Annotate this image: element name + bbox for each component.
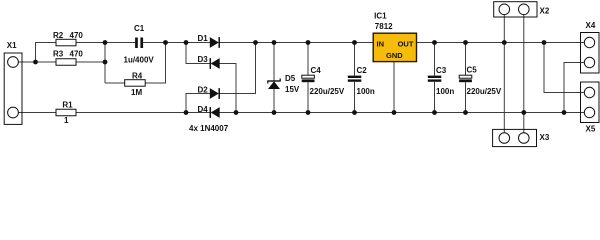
- wire gnd rail: [220, 112, 585, 114]
- svg-text:X5: X5: [586, 124, 596, 133]
- svg-text:220u/25V: 220u/25V: [310, 87, 345, 96]
- node junction C2 top: [352, 40, 357, 45]
- wire C4 bottom: [307, 82, 309, 112]
- node junction C5 top: [463, 40, 468, 45]
- wire R4 right: [145, 43, 165, 84]
- svg-text:X2: X2: [540, 7, 550, 16]
- node junction X4 gnd branch: [562, 110, 567, 115]
- wire plus branch to X5 pin1: [544, 43, 584, 93]
- wire merge vertical x105: [104, 43, 106, 84]
- node junction X3 gnd: [521, 110, 526, 115]
- resistor R1: [56, 109, 76, 116]
- svg-text:OUT: OUT: [398, 40, 414, 49]
- diode D3: [210, 58, 219, 69]
- wire C1 right to node A: [143, 42, 210, 44]
- resistor R3: [56, 59, 76, 66]
- svg-text:IN: IN: [377, 40, 385, 49]
- node junction C1/R4 right: [163, 40, 168, 45]
- svg-text:D3: D3: [198, 55, 209, 64]
- node junction R2 right: [103, 40, 108, 45]
- connector X4: [581, 33, 600, 74]
- wire D5 bottom: [273, 89, 275, 113]
- wire top rail left of R2: [36, 43, 57, 63]
- diode D1: [210, 37, 219, 48]
- node junction X1-R2R3: [33, 60, 38, 65]
- node junction C2 bottom: [352, 110, 357, 115]
- node junction R3 right: [103, 60, 108, 65]
- wire R3 right to merge: [76, 61, 105, 63]
- svg-text:GND: GND: [386, 51, 403, 60]
- svg-text:1M: 1M: [131, 88, 142, 97]
- diode D2: [210, 88, 219, 99]
- svg-text:470: 470: [70, 50, 84, 59]
- svg-text:C3: C3: [436, 66, 447, 75]
- wire IC1 OUT to X4 pin1: [417, 42, 585, 44]
- node B junction: [184, 110, 189, 115]
- connector X2: [494, 2, 537, 17]
- capacitor C4 electrolytic: [302, 75, 315, 82]
- wire C3 bottom: [434, 82, 436, 113]
- svg-text:220u/25V: 220u/25V: [467, 87, 502, 96]
- node junction C3 bottom: [432, 110, 437, 115]
- node junction X2 plus: [502, 40, 507, 45]
- connector X1: [4, 53, 22, 124]
- diode D4: [210, 107, 219, 118]
- wire D5 top: [273, 43, 275, 82]
- svg-text:D5: D5: [285, 74, 296, 83]
- svg-text:D4: D4: [198, 105, 209, 114]
- wire R4 left: [105, 82, 125, 84]
- wire C2 bottom: [354, 82, 356, 113]
- svg-text:C4: C4: [311, 66, 322, 75]
- node junction C3 top: [432, 40, 437, 45]
- svg-text:1u/400V: 1u/400V: [124, 56, 155, 65]
- node junction IC1 gnd: [392, 110, 397, 115]
- resistor R4: [125, 80, 146, 87]
- svg-text:IC1: IC1: [374, 11, 387, 20]
- wire C5 top: [465, 43, 467, 76]
- wire D1 cathode to IC1 IN: [220, 42, 374, 44]
- svg-text:7812: 7812: [375, 22, 393, 31]
- node junction X5 plus branch: [542, 40, 547, 45]
- svg-text:100n: 100n: [357, 87, 375, 96]
- zener diode D5: [267, 78, 280, 89]
- node junction D3/D4 anode: [234, 110, 239, 115]
- resistor R2: [56, 39, 76, 46]
- svg-text:4x 1N4007: 4x 1N4007: [189, 124, 229, 133]
- node junction C4 bottom: [306, 110, 311, 115]
- connector X5: [581, 82, 600, 123]
- svg-text:1: 1: [64, 116, 69, 125]
- svg-text:R1: R1: [62, 101, 73, 110]
- svg-text:C2: C2: [357, 66, 368, 75]
- wire node A to D3: [186, 43, 210, 64]
- svg-text:R2: R2: [53, 31, 64, 40]
- wire X2 pin2 to X3 pin2: [523, 15, 525, 133]
- capacitor C1: [135, 38, 143, 49]
- svg-text:R3: R3: [53, 50, 64, 59]
- wire R2 right to C1: [76, 42, 135, 44]
- wire C5 bottom: [465, 82, 467, 112]
- wire X1 pin1 to R3: [18, 61, 56, 63]
- svg-text:D1: D1: [198, 34, 209, 43]
- svg-text:X3: X3: [540, 133, 550, 142]
- svg-text:100n: 100n: [436, 87, 454, 96]
- svg-text:470: 470: [70, 31, 84, 40]
- voltage regulator IC1: [373, 33, 416, 61]
- connector X3: [493, 129, 537, 146]
- wire IC1 GND down: [393, 62, 395, 113]
- svg-text:X1: X1: [7, 41, 17, 50]
- svg-text:C1: C1: [134, 24, 145, 33]
- capacitor C2: [348, 76, 362, 82]
- capacitor C5 electrolytic: [459, 75, 472, 82]
- wire C2 top: [354, 43, 356, 76]
- wire D3 anode down to gnd node: [220, 64, 237, 113]
- wire X1 pin2 to R1: [18, 112, 56, 114]
- svg-text:D2: D2: [198, 86, 209, 95]
- node junction C5 bottom: [463, 110, 468, 115]
- svg-text:15V: 15V: [285, 85, 300, 94]
- node junction C4 top: [306, 40, 311, 45]
- wire D2 cathode up to top rail: [220, 43, 256, 94]
- wire X4 pin2 to gnd rail: [564, 63, 584, 113]
- wire X2 pin1 to X3 pin1: [503, 15, 505, 133]
- svg-text:C5: C5: [467, 66, 478, 75]
- wire C4 top: [307, 43, 309, 76]
- node junction D5 bottom: [272, 110, 277, 115]
- node junction D2 cathode: [253, 40, 258, 45]
- wire node B to D2: [186, 94, 210, 113]
- capacitor C3: [428, 76, 442, 82]
- wire C3 top: [434, 43, 436, 76]
- node A junction: [184, 40, 189, 45]
- wire R1 right to node B: [76, 112, 210, 114]
- svg-text:X4: X4: [586, 21, 596, 30]
- node junction D5 top: [272, 40, 277, 45]
- svg-text:R4: R4: [132, 72, 143, 81]
